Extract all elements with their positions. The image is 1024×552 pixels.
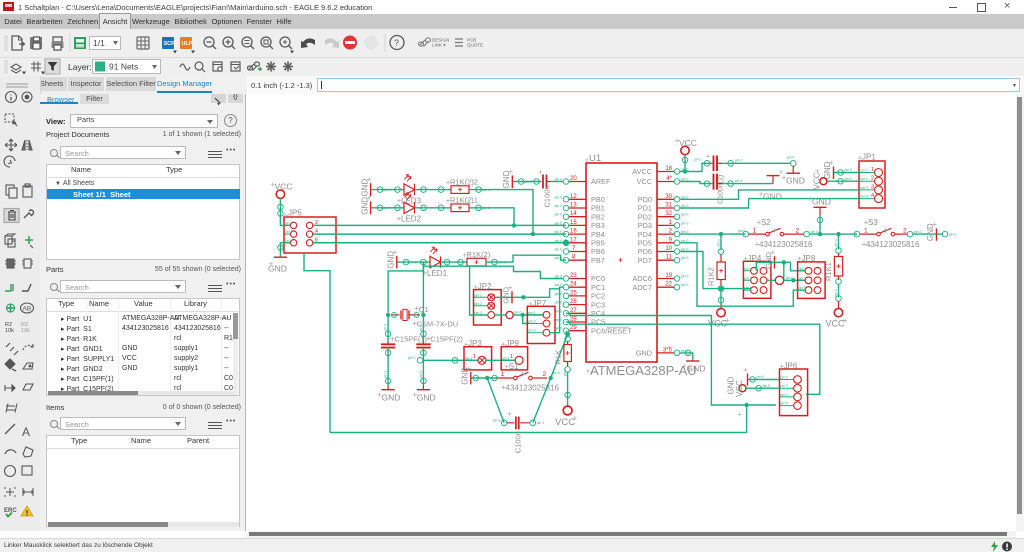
wire PD4 to S2 [680,233,746,235]
svg-text:VCC: VCC [826,319,846,329]
junction R1K1 top [836,232,840,236]
U1 left pin names [591,177,632,335]
svg-text:2: 2 [796,227,800,234]
svg-text:pin 0: pin 0 [555,327,562,331]
ground GND (C15PF2) [413,386,436,403]
svg-text:ATMEGA328P-AU: ATMEGA328P-AU [590,363,697,378]
svg-text:24: 24 [570,282,577,288]
svg-text:GND: GND [764,252,773,269]
svg-text:VCC: VCC [275,182,293,192]
svg-text:pin 1: pin 1 [744,267,751,271]
ground GND (C15PF1) [378,386,401,403]
svg-text:pin 0: pin 0 [555,309,562,313]
wire LED1 out to PB7 [486,255,566,262]
svg-text:26: 26 [570,299,577,305]
resistor R1K(2)2 [446,178,490,194]
svg-text:pin 0: pin 0 [555,195,562,199]
svg-text:U1: U1 [589,153,601,164]
connector JP3 [464,339,492,370]
resistor R1K1 [824,234,843,308]
svg-text:14: 14 [570,211,577,217]
svg-text:PD0: PD0 [638,195,652,204]
wire JP7 pin3 to PC1 [550,287,563,333]
capacitor C100n(2) top [694,154,791,204]
resistor R1K2 [707,234,726,308]
wire VCC pin to C100n(2) bottom [680,182,713,184]
svg-text:pin 3: pin 3 [781,393,788,397]
svg-text:23: 23 [570,273,577,279]
junction R1K2 top [719,232,723,236]
svg-text:30: 30 [665,194,672,200]
svg-text:pin 0: pin 0 [384,206,391,210]
wire LED3 out to PB4 bus junction [469,190,533,235]
svg-text:pin 0: pin 0 [384,188,391,192]
connector JP2 [474,282,502,325]
svg-text:pin 0: pin 0 [811,230,818,234]
wire PD1 to JP1 pin4 [680,199,859,208]
svg-text:GND: GND [687,364,706,374]
svg-text:PC3: PC3 [591,300,605,309]
svg-text:S3: S3 [868,218,878,227]
svg-text:pin 0: pin 0 [681,221,688,225]
wire JP5 bus to PB3 [313,224,566,226]
svg-text:GND: GND [502,170,511,188]
wire into JP2 pin3 from left [470,266,488,315]
wire JP5 down to bottom net [304,253,330,433]
svg-text:19: 19 [665,273,672,279]
svg-text:JP9: JP9 [505,339,519,348]
svg-text:PD2: PD2 [638,212,652,221]
svg-text:pin 0: pin 0 [681,275,688,279]
svg-text:JP5: JP5 [288,209,302,218]
svg-text:1: 1 [864,227,868,234]
svg-text:R1K: R1K [554,350,563,365]
U1 right pin circles [674,169,680,356]
pin circle between JP2/JP7 [495,310,525,318]
svg-text:25: 25 [570,290,577,296]
svg-text:pin 0: pin 0 [763,384,770,388]
svg-text:13: 13 [570,203,577,209]
U1 left tiny pin labels [555,178,562,331]
svg-text:LINK ▾: LINK ▾ [432,43,446,48]
svg-text:1: 1 [871,167,874,173]
svg-text:pin 2: pin 2 [475,302,482,306]
wire JP5 bus to PB5 [313,242,566,244]
svg-text:GND: GND [823,161,832,179]
wire VCC to JP5 pin1 [280,198,290,225]
svg-text:pin 0: pin 0 [525,180,532,184]
switch S3 [854,218,921,249]
svg-text:JP2: JP2 [478,282,492,291]
svg-text:pin 3: pin 3 [861,186,868,190]
svg-text:pin 0: pin 0 [555,204,562,208]
svg-text:ULP: ULP [182,41,193,47]
supply VCC (AVCC) [675,138,697,174]
svg-text:17: 17 [570,237,577,243]
svg-text:pin 0: pin 0 [787,156,794,160]
svg-text:pin 0: pin 0 [949,233,956,237]
svg-text:GND: GND [926,223,935,241]
svg-text:pin 0: pin 0 [845,168,852,172]
svg-text:pin 0: pin 0 [738,229,745,233]
svg-text:AB: AB [23,306,32,313]
svg-text:18: 18 [665,166,672,172]
svg-text:SCH: SCH [5,4,12,8]
svg-text:GND: GND [812,197,831,207]
wire LED1 branch down to crystal nets [422,262,424,271]
svg-text:pin 1: pin 1 [465,356,472,360]
svg-text:4: 4 [871,193,874,199]
crystal Q1 [386,305,458,329]
svg-text:VCC: VCC [637,177,652,186]
LED2 [371,193,451,224]
svg-text:C100n: C100n [514,431,523,453]
svg-text:Layer:: Layer: [68,62,92,72]
wire PD5 down to JP8 pin5 [680,243,805,306]
svg-text:?: ? [394,38,399,48]
svg-text:2: 2 [871,176,874,182]
junction LED3/PB4 [531,232,535,236]
svg-text:VCC: VCC [813,172,822,189]
svg-text:1: 1 [473,354,476,360]
ground GND (LED1 row) [387,250,398,269]
capacitor C100n (reset) [493,412,544,454]
LED1 [397,247,467,278]
connector JP4 [743,254,771,299]
svg-text:JP6: JP6 [784,362,798,371]
svg-text:JP4: JP4 [748,254,762,263]
capacitor C100n(2) bottom [704,174,773,190]
wire JP5 bus to PB4 [313,233,566,235]
svg-text:3: 3 [871,184,874,190]
svg-text:AVCC: AVCC [632,167,652,176]
svg-text:PB4: PB4 [591,230,605,239]
svg-text:pin 0: pin 0 [786,276,793,280]
svg-text:ADC7: ADC7 [633,283,652,292]
svg-text:pin 1: pin 1 [384,324,388,331]
connector JP6 [780,362,808,416]
svg-text:C15PF(2): C15PF(2) [430,335,463,344]
wire PC4 to JP6 pin4 [566,313,776,405]
svg-text:pin 1: pin 1 [735,179,742,183]
svg-text:pin 0: pin 0 [681,256,688,260]
svg-text:10k: 10k [5,328,14,334]
svg-text:2: 2 [903,227,907,234]
wire junction down to JP7 pin2 [523,315,529,324]
connector pin stubs (green) [284,173,875,406]
wire crystal right vertical [422,266,424,341]
svg-text:PC1: PC1 [591,283,605,292]
ground GND (S1, rotated) [460,366,471,384]
wire PD6 down to JP4 pin5 / R1K2 [680,252,751,291]
U1 right pin numbers [663,166,673,353]
ground GND (AVCC cap) [782,156,805,186]
ground GND (AREF cap) [502,170,513,189]
svg-text:pin 0: pin 0 [555,213,562,217]
svg-text:pin 0: pin 0 [845,177,852,181]
wire S1 to RESET junction [551,334,568,378]
svg-text:PC0: PC0 [591,274,605,283]
svg-text:1: 1 [501,371,505,378]
svg-text:PD1: PD1 [638,204,652,213]
svg-text:10k: 10k [21,328,30,334]
svg-text:pin 3: pin 3 [528,329,535,333]
svg-text:pin 2: pin 2 [861,177,868,181]
svg-text:434123025816: 434123025816 [506,383,560,392]
U1 right pin stubs [657,172,674,353]
svg-text:pin 0: pin 0 [514,310,521,314]
svg-text:GND: GND [763,192,782,202]
svg-text:1: 1 [510,354,513,360]
ground GND (JP5) [268,243,290,274]
svg-text:PB2: PB2 [591,212,605,221]
svg-text:28: 28 [570,317,577,323]
svg-text:pin 0: pin 0 [914,230,921,234]
svg-text:2: 2 [543,371,547,378]
svg-text:PC2: PC2 [591,292,605,301]
ground GND (S3, rotated) [913,223,956,242]
svg-text:pin 0: pin 0 [834,289,838,296]
svg-text:PB3: PB3 [591,221,605,230]
capacitor C100n (AREF) [513,170,563,208]
svg-text:LED2: LED2 [401,215,422,224]
svg-text:Q1: Q1 [419,305,429,314]
ground GND (VCC cap, bar up) [759,170,783,202]
svg-text:JP1: JP1 [862,153,876,162]
svg-text:pin 1: pin 1 [735,159,742,163]
svg-text:32: 32 [665,211,672,217]
svg-text:pin 3: pin 3 [744,276,751,280]
ground GND (JP4/JP8, rotated) [764,251,775,269]
connector JP8 [798,254,826,299]
svg-text:pin 0: pin 0 [563,369,567,376]
svg-text:C100n: C100n [543,185,552,207]
svg-text:pin 1: pin 1 [419,324,423,331]
svg-text:PC6/RESET: PC6/RESET [591,326,632,335]
svg-text:pin 2: pin 2 [528,320,535,324]
supply VCC (JP1 pin2, rotated) [813,169,860,190]
svg-text:pin 1: pin 1 [528,311,535,315]
junction bottom net to JP6 [744,403,748,407]
ground GND (S2) [808,197,831,237]
svg-text:R1K2: R1K2 [707,267,716,286]
svg-text:JP7: JP7 [532,299,546,308]
svg-text:pin 0: pin 0 [757,375,764,379]
op-amp U1 ATMEGA328P-AU body [585,153,697,378]
ground GND (JP2 row1, rotated) [495,286,560,304]
svg-text:R1K(2)1: R1K(2)1 [450,196,478,205]
svg-text:PB0: PB0 [591,195,605,204]
svg-text:pin 1: pin 1 [799,267,806,271]
svg-text:pin 1: pin 1 [502,356,509,360]
svg-text:pin 0: pin 0 [493,419,500,423]
svg-text:PD7: PD7 [638,256,652,265]
svg-text:PC4: PC4 [591,309,605,318]
svg-text:VCC: VCC [679,138,697,148]
U1 right tiny pin labels [681,168,688,353]
capacitor C15PF(2) [416,324,463,386]
ground GND (LED2 row) [361,196,372,215]
svg-text:GND: GND [382,392,401,402]
svg-text:29: 29 [570,325,577,331]
svg-text:pin 4: pin 4 [781,402,788,406]
svg-text:GND: GND [361,179,370,197]
ground GND (JP1 pin1, rotated) [823,161,859,180]
svg-text:R1K(2)2: R1K(2)2 [450,178,478,187]
connector JP9 [501,339,527,370]
resistor R1K (reset pullup) [554,334,572,406]
svg-text:pin 0: pin 0 [555,318,562,322]
ground GND (LED3 row) [361,178,372,197]
svg-text:AREF: AREF [591,177,611,186]
svg-text:pin 1: pin 1 [861,169,868,173]
wire LED2 out to PB3 bus junction [469,208,514,226]
svg-text:PD5: PD5 [638,239,652,248]
svg-text:pin 2: pin 2 [781,384,788,388]
supply VCC (JP5) [271,182,293,199]
svg-text:4*: 4* [666,176,672,182]
svg-text:SCR: SCR [164,41,176,47]
svg-text:PD3: PD3 [638,221,652,230]
wire PD0 to JP1 pin3 [680,190,859,199]
svg-text:PB7: PB7 [591,256,605,265]
LED3 [371,175,451,206]
connector JP7 [527,299,555,344]
svg-text:JP3: JP3 [468,339,482,348]
svg-text:pin 0: pin 0 [555,301,562,305]
svg-text:pin 1: pin 1 [475,293,482,297]
svg-text:GND: GND [636,349,652,358]
svg-text:pin 4: pin 4 [861,195,868,199]
svg-text:QUOTE: QUOTE [467,43,483,48]
resistor R1K(2)1 [446,196,490,212]
svg-text:LED1: LED1 [427,269,448,278]
connector JP5 [284,209,336,254]
svg-text:ADC6: ADC6 [633,274,652,283]
wire crystal left vertical [388,271,423,313]
wire LED1 net staircase to PC0 [423,266,563,278]
junction PC6/RESET [565,332,570,337]
junction (GND net) [782,260,786,264]
svg-text:pin 0: pin 0 [681,213,688,217]
svg-text:pin 0: pin 0 [694,158,701,162]
wire AVCC to C100n(2) [680,163,713,171]
svg-text:pin 2: pin 2 [419,371,423,378]
svg-text:12: 12 [570,194,577,200]
connector JP1 [858,153,885,209]
svg-text:S1: S1 [509,362,519,371]
svg-text:JP8: JP8 [802,254,816,263]
svg-text:GND: GND [502,286,511,303]
supply VCC (reset pullup) [555,406,577,428]
junction on PB5 pin [564,240,569,245]
svg-text:pin 0: pin 0 [555,292,562,296]
svg-text:pin 1: pin 1 [717,239,721,246]
svg-text:pin 0: pin 0 [410,261,417,265]
svg-text:pin 3: pin 3 [799,276,806,280]
resistor R1K(2) [463,250,506,266]
svg-text:1/1: 1/1 [93,38,105,48]
U1 right pin names [632,167,652,357]
svg-text:15: 15 [570,220,577,226]
svg-text:27: 27 [570,308,577,314]
ground GND (JP6, rotated) [727,368,780,395]
svg-text:pin 0: pin 0 [681,283,688,287]
svg-text:GND: GND [417,392,436,402]
svg-text:11: 11 [666,255,673,261]
svg-text:pin 2: pin 2 [384,371,388,378]
svg-text:A: A [22,425,30,439]
svg-text:434123025816: 434123025816 [866,240,920,249]
svg-text:16: 16 [570,229,577,235]
svg-text:PB6: PB6 [591,247,605,256]
U1 left pin circles [563,179,569,334]
svg-text:PD6: PD6 [638,247,652,256]
svg-text:VCC: VCC [735,380,744,397]
svg-text:VCC: VCC [555,417,575,428]
svg-text:R1K(2): R1K(2) [467,250,491,259]
wire S2 to S3 / R1K1 [809,233,857,235]
svg-text:GND: GND [786,176,805,186]
ground GND (U1 GND pin) [680,350,706,373]
svg-text:GND: GND [268,264,287,274]
svg-text:pin 1: pin 1 [537,421,544,425]
pin NC circle between JP4/JP8 [767,276,805,285]
svg-text:31: 31 [665,203,672,209]
wire S1 diagonals to C100n [487,378,551,423]
U1 left pin numbers [570,176,577,331]
svg-text:PD4: PD4 [638,230,652,239]
capacitor C15PF(1) [381,324,428,386]
svg-text:pin 3: pin 3 [285,230,292,234]
svg-text:1: 1 [753,227,757,234]
wire bottom long net [330,405,747,433]
wire GND to JP8 pin1 [756,262,805,271]
supply VCC (JP6, rotated) [735,380,780,417]
switch S2 [738,218,818,249]
svg-text:GND: GND [460,367,469,385]
svg-text:22: 22 [665,282,672,288]
svg-text:pin 0: pin 0 [555,248,562,252]
svg-text:20: 20 [570,176,577,182]
svg-text:GND: GND [361,197,370,215]
U1 left pin stubs [569,182,586,331]
svg-text:3*5: 3*5 [663,347,673,353]
svg-text:pin 1: pin 1 [781,376,788,380]
switch S1 [471,362,560,392]
svg-text:PB5: PB5 [591,239,605,248]
svg-text:S2: S2 [761,218,771,227]
svg-text:GND: GND [387,251,396,269]
wire JP3/JP9 row [408,356,478,363]
svg-text:pin 0: pin 0 [408,356,415,360]
svg-text:434123025816: 434123025816 [759,240,813,249]
svg-text:pin 1: pin 1 [834,239,838,246]
supply VCC (R1K1) [826,308,848,328]
junction LED2/PB3 [512,223,516,227]
wire JP3 to JP9 [486,359,515,361]
svg-text:PB1: PB1 [591,204,605,213]
svg-text:91 Nets: 91 Nets [109,62,138,72]
supply VCC (R1K2) [708,308,730,328]
wire PC5 to JP6 pin3 [566,322,820,394]
svg-text:PC5: PC5 [591,318,605,327]
svg-text:10: 10 [665,246,672,252]
